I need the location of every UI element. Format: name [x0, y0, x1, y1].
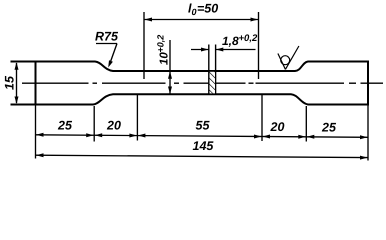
label 55	[196, 119, 211, 133]
extension line right end (25/145)	[367, 105, 369, 161]
svg-text:25: 25	[57, 119, 73, 133]
center line (dash-dot axis)	[22, 82, 383, 84]
label 20 (right)	[270, 120, 285, 134]
dimension l0=50: value label	[188, 2, 218, 18]
svg-text:25: 25	[321, 121, 337, 135]
section hatch fill	[210, 72, 216, 94]
extension line 20|55	[136, 95, 138, 141]
svg-text:55: 55	[196, 119, 211, 133]
dimension 145: value label	[193, 139, 215, 153]
svg-text:=50: =50	[197, 2, 218, 16]
svg-text:+0,2: +0,2	[239, 33, 258, 44]
section band borders (1.8 mm thickness cross-section)	[209, 45, 216, 95]
specimen left edge	[35, 62, 37, 105]
label 20 (left)	[106, 119, 121, 133]
extension line 55|20	[261, 95, 263, 141]
svg-text:1,8: 1,8	[222, 34, 239, 48]
dimension 1,8 +0,2: value label	[222, 33, 258, 48]
dimension row arrows	[36, 133, 368, 140]
dimension row 25-20-55-20-25: dimension line	[36, 135, 369, 138]
specimen right edge	[367, 62, 369, 105]
label 25 (right)	[321, 121, 337, 135]
svg-text:145: 145	[193, 139, 215, 153]
specimen top edge with R75 fillets	[12, 62, 369, 72]
svg-text:0: 0	[192, 7, 197, 17]
dimension l0=50: dimension line with arrows	[144, 19, 259, 21]
dimension 10 +0,2: value label (rotated)	[156, 35, 171, 65]
dimension 15: line and arrows	[16, 63, 18, 103]
label 25 (left)	[57, 119, 73, 133]
svg-text:15: 15	[3, 75, 17, 90]
radius label R75 with leader arrow	[95, 30, 119, 44]
extension line left end (25/145)	[35, 105, 37, 159]
extension line 20|25	[305, 106, 307, 142]
svg-text:10: 10	[159, 52, 171, 65]
svg-text:R75: R75	[95, 30, 119, 44]
dimension 1,8 +0,2: leader lines and arrows	[191, 49, 256, 51]
dimension 145: dimension line with arrows	[36, 155, 369, 157]
svg-text:20: 20	[270, 120, 285, 134]
dimension 15: value label (rotated)	[3, 75, 17, 90]
surface roughness symbol	[278, 46, 299, 69]
specimen bottom edge with R75 fillets	[12, 94, 369, 104]
dimension 10 +0,2: dimension line and arrows	[169, 40, 171, 94]
svg-text:+0,2: +0,2	[156, 35, 166, 53]
svg-text:20: 20	[106, 119, 121, 133]
dimension l0=50: extension lines	[144, 12, 259, 79]
extension line 25|20	[93, 106, 95, 142]
